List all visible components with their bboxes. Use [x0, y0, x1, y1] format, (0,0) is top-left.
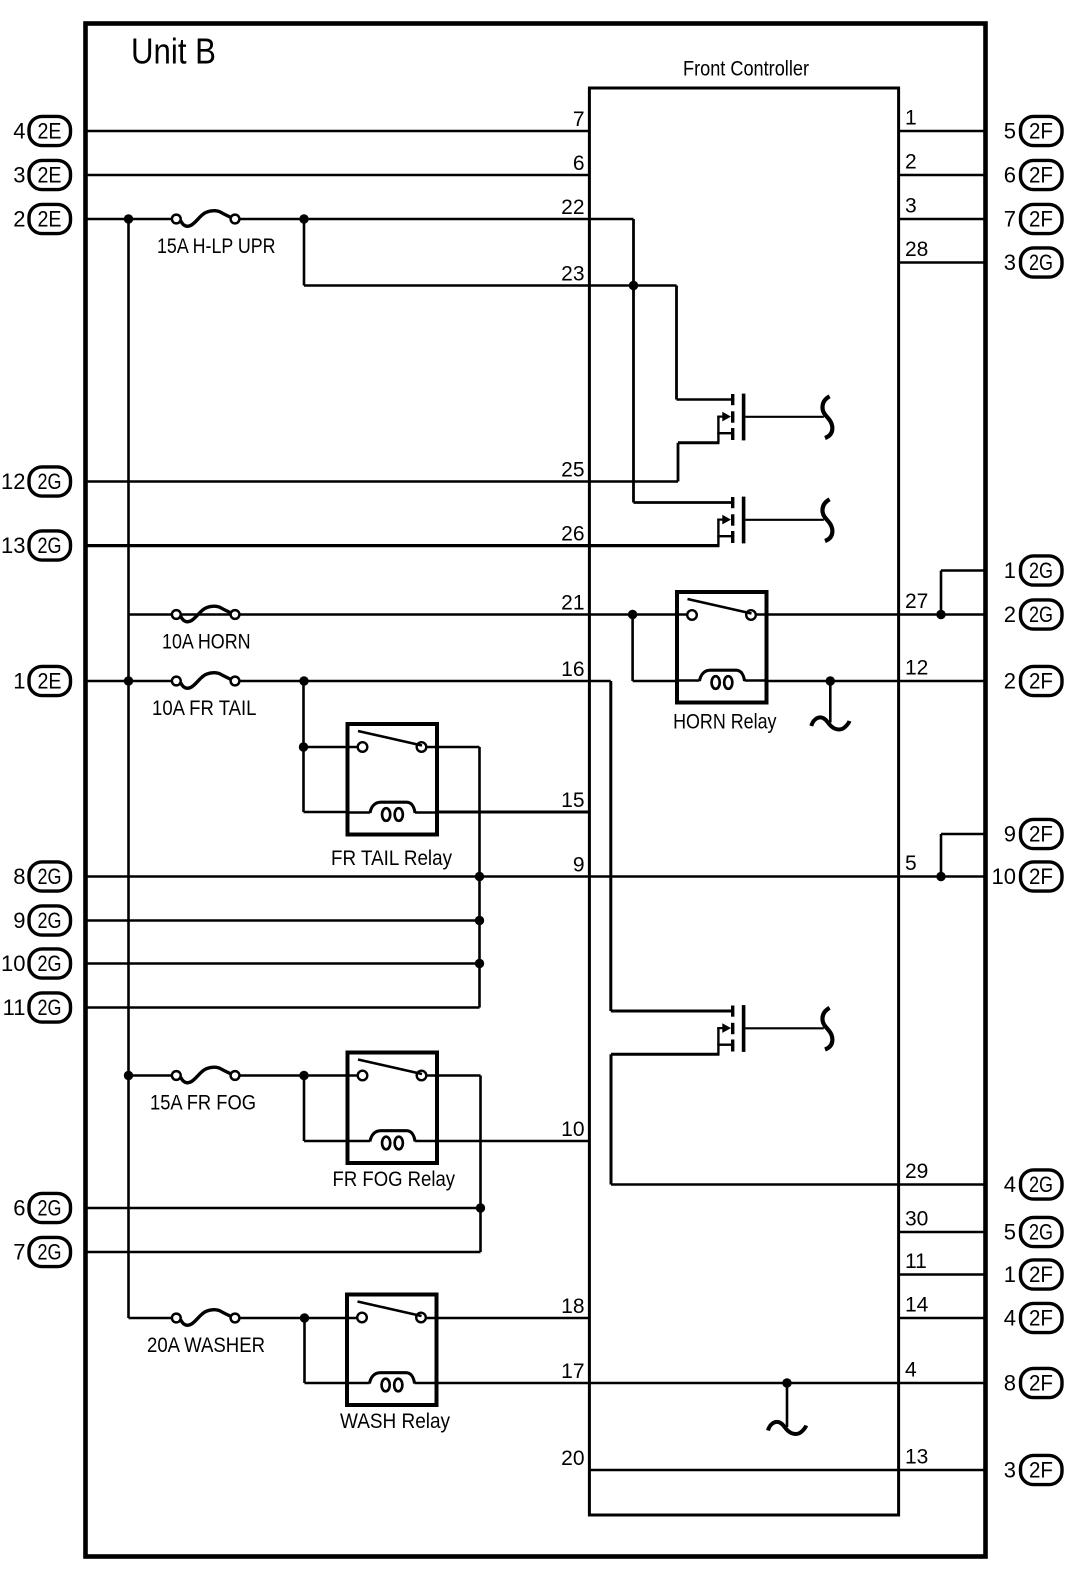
svg-text:22: 22: [561, 196, 584, 219]
svg-text:10: 10: [561, 1118, 584, 1141]
connector 9 (2G) left: [13, 906, 70, 935]
connector 2 (2E) left: [13, 204, 70, 233]
svg-text:20: 20: [561, 1447, 584, 1470]
svg-text:10: 10: [1, 951, 25, 976]
connector 8 (2G) left: [13, 862, 70, 891]
junction fuse/pin23: [299, 214, 308, 223]
svg-text:2E: 2E: [38, 119, 62, 144]
svg-text:2G: 2G: [38, 864, 62, 889]
svg-text:26: 26: [561, 522, 584, 545]
svg-text:2G: 2G: [1029, 1220, 1053, 1245]
svg-text:Unit B: Unit B: [131, 31, 216, 72]
wire from 11(2G): [86, 1006, 480, 1009]
svg-text:8: 8: [1004, 1371, 1016, 1396]
connector 1 (2G) right: [1004, 556, 1062, 585]
svg-text:4: 4: [1004, 1306, 1016, 1331]
wire internal pin16 down to Q3: [609, 681, 612, 1011]
wire FR TAIL coil drive: [302, 681, 305, 812]
svg-text:1: 1: [905, 107, 917, 130]
junction FR FOG fuse/coil: [299, 1071, 308, 1080]
connector 4 (2E) left: [13, 116, 70, 145]
svg-text:27: 27: [905, 590, 928, 613]
wire WASH coil drive: [303, 1318, 306, 1383]
svg-text:1: 1: [13, 669, 25, 694]
svg-text:2: 2: [905, 151, 917, 174]
wire pin10 FR FOG coil: [437, 1140, 589, 1143]
svg-text:2: 2: [13, 207, 25, 232]
relay K1 HORN Relay: [673, 592, 777, 733]
wire pin28 to 3(2G): [899, 261, 986, 264]
wire from 7(2G): [86, 1251, 481, 1254]
svg-text:2G: 2G: [38, 1196, 62, 1221]
svg-text:2G: 2G: [38, 908, 62, 933]
Front Controller box U1: [589, 88, 898, 1515]
connector 2 (2F) right: [1004, 666, 1062, 695]
junction tail out/pin9: [475, 872, 484, 881]
wire pin26 from 13(2G) (MOSFET Q2 source): [86, 544, 719, 547]
connector 12 (2G) left: [1, 467, 70, 496]
relay K2 FR TAIL Relay: [331, 724, 452, 870]
connector 3 (2G) right: [1004, 248, 1062, 277]
wire drop to pin23: [303, 219, 306, 286]
svg-text:HORN Relay: HORN Relay: [673, 710, 777, 733]
svg-text:2G: 2G: [1029, 558, 1053, 583]
svg-text:15A FR FOG: 15A FR FOG: [150, 1092, 256, 1115]
wire pin17/pin4 wash coil to 8(2F): [437, 1382, 986, 1384]
fuse F4 15A FR FOG: [150, 1067, 256, 1114]
fuse F3 10A FR TAIL: [152, 673, 257, 720]
wire pin30 to 5(2G): [899, 1231, 986, 1234]
wire pin6 from 3(2E): [86, 174, 590, 177]
svg-text:6: 6: [573, 152, 585, 175]
ground at horn relay coil: [811, 681, 849, 729]
svg-text:2F: 2F: [1029, 1262, 1053, 1287]
wire pin3 to 7(2F): [899, 218, 986, 221]
fuse F2 10A HORN: [162, 606, 251, 653]
fuse F1 15A H-LP UPR: [157, 211, 276, 258]
load squiggle of transistor Q1: [822, 396, 832, 438]
svg-text:5: 5: [1004, 1220, 1016, 1245]
svg-text:5: 5: [1004, 119, 1016, 144]
junction 2(2E)/bus: [124, 214, 133, 223]
wire pin20/pin13 to 3(2F): [589, 1469, 985, 1471]
wire pin22 from 2(2E) through fuse: [86, 218, 173, 221]
wire pin29 to 4(2G): [611, 1183, 986, 1186]
svg-text:5: 5: [905, 852, 917, 875]
wire internal pin22 to Q2 gate: [632, 219, 635, 503]
svg-text:9: 9: [13, 908, 25, 933]
connector 7 (2G) left: [13, 1237, 70, 1266]
svg-text:30: 30: [905, 1208, 928, 1231]
junction horn line/coil: [628, 610, 637, 619]
wire FR TAIL switch feed: [304, 746, 358, 749]
fuse F5 20A WASHER: [147, 1310, 265, 1357]
svg-text:23: 23: [561, 262, 584, 285]
junction horn out/1(2G): [936, 610, 945, 619]
wire pin18 washer line through fuse: [129, 1317, 173, 1320]
svg-text:2: 2: [1004, 602, 1016, 627]
svg-text:1: 1: [1004, 558, 1016, 583]
svg-text:2G: 2G: [1029, 602, 1053, 627]
svg-text:14: 14: [905, 1294, 929, 1317]
junction bus/FR FOG: [124, 1071, 133, 1080]
wire Q1 source to pin25 line: [677, 443, 680, 482]
svg-text:2F: 2F: [1029, 207, 1053, 232]
svg-text:20A WASHER: 20A WASHER: [147, 1334, 265, 1357]
svg-text:3: 3: [905, 195, 917, 218]
wire pin16 from 1(2E) through fuse: [86, 680, 173, 683]
junction bus/1(2E): [124, 676, 133, 685]
junction FR TAIL switch/coil: [299, 742, 308, 751]
svg-text:2: 2: [1004, 669, 1016, 694]
junction pin5/9(2F): [936, 872, 945, 881]
svg-text:6: 6: [1004, 163, 1016, 188]
connector 13 (2G) left: [1, 531, 70, 560]
svg-text:18: 18: [561, 1295, 584, 1318]
svg-text:17: 17: [561, 1360, 584, 1383]
svg-text:2G: 2G: [1029, 1172, 1053, 1197]
svg-text:9: 9: [573, 853, 585, 876]
wire pin2 to 6(2F): [899, 174, 986, 177]
wire from 9(2G): [86, 919, 480, 922]
svg-text:10: 10: [992, 864, 1016, 889]
svg-text:4: 4: [1004, 1172, 1016, 1197]
svg-text:10A FR TAIL: 10A FR TAIL: [152, 697, 257, 720]
ground at wash relay line: [768, 1383, 806, 1434]
svg-text:7: 7: [573, 108, 585, 131]
svg-text:4: 4: [13, 119, 25, 144]
wire FR FOG coil drive: [303, 1076, 306, 1142]
connector 5 (2F) right: [1004, 116, 1062, 145]
svg-text:FR TAIL Relay: FR TAIL Relay: [331, 847, 452, 870]
connector 8 (2F) right: [1004, 1368, 1062, 1397]
svg-text:2G: 2G: [38, 469, 62, 494]
svg-text:11: 11: [3, 995, 26, 1020]
svg-text:2F: 2F: [1029, 822, 1053, 847]
connector 1 (2E) left: [13, 666, 70, 695]
wire pin9/pin5 from 8(2G) to 10(2F): [86, 875, 986, 877]
connector 6 (2F) right: [1004, 160, 1062, 189]
svg-text:7: 7: [13, 1240, 25, 1265]
wire pin11 to 1(2F): [899, 1273, 986, 1276]
svg-text:FR FOG Relay: FR FOG Relay: [333, 1168, 456, 1191]
wire pin15 FR TAIL coil: [437, 811, 589, 814]
svg-text:3: 3: [1004, 1458, 1016, 1483]
svg-text:2G: 2G: [38, 533, 62, 558]
wire stub to 1(2G): [941, 569, 986, 572]
connector 2 (2G) right: [1004, 600, 1062, 629]
svg-text:3: 3: [13, 163, 25, 188]
svg-text:2E: 2E: [38, 669, 62, 694]
transistor Q1: [677, 394, 824, 443]
svg-text:15A H-LP UPR: 15A H-LP UPR: [157, 235, 276, 258]
connector 9 (2F) right: [1004, 819, 1062, 848]
svg-text:3: 3: [1004, 250, 1016, 275]
connector 4 (2G) right: [1004, 1170, 1062, 1199]
wire bus from 2(2E) junction down left side: [127, 219, 130, 1318]
svg-text:2F: 2F: [1029, 1458, 1053, 1483]
wire FR FOG switch output: [426, 1074, 480, 1077]
wire pin25 from 12(2G): [86, 480, 679, 483]
svg-text:10A HORN: 10A HORN: [162, 631, 251, 654]
relay K3 FR FOG Relay: [333, 1053, 456, 1192]
junction WASHER fuse/coil: [300, 1313, 309, 1322]
svg-text:2E: 2E: [38, 207, 62, 232]
svg-text:12: 12: [1, 469, 25, 494]
svg-text:2E: 2E: [38, 163, 62, 188]
connector 5 (2G) right: [1004, 1217, 1062, 1246]
wire from 6(2G): [86, 1207, 481, 1210]
connector 11 (2G) left: [3, 993, 71, 1022]
svg-text:13: 13: [905, 1446, 928, 1469]
wire pin12 horn coil to 2(2F): [766, 680, 986, 683]
wire pin1 to 5(2F): [899, 130, 986, 133]
junction 1(2E)/FR TAIL: [299, 676, 308, 685]
wire stub to 9(2F): [941, 833, 986, 836]
svg-text:2G: 2G: [1029, 250, 1053, 275]
svg-text:7: 7: [1004, 207, 1016, 232]
wire pin7 from 4(2E): [86, 130, 590, 133]
svg-text:28: 28: [905, 238, 928, 261]
wire Q3 source down to pin29 line: [610, 1054, 613, 1184]
svg-text:9: 9: [1004, 822, 1016, 847]
svg-text:13: 13: [1, 533, 25, 558]
wire pin23: [304, 284, 677, 287]
load squiggle of transistor Q3: [822, 1008, 832, 1050]
svg-text:2F: 2F: [1029, 1371, 1053, 1396]
wire pin21/pin27 horn line to 2(2G): [129, 613, 688, 616]
svg-text:Front Controller: Front Controller: [683, 58, 809, 81]
wire pin14 to 4(2F): [899, 1317, 986, 1320]
svg-text:2G: 2G: [38, 1240, 62, 1265]
svg-text:2G: 2G: [38, 995, 62, 1020]
svg-text:11: 11: [905, 1250, 927, 1273]
connector 3 (2E) left: [13, 160, 70, 189]
svg-text:29: 29: [905, 1160, 928, 1183]
connector 4 (2F) right: [1004, 1303, 1062, 1332]
junction pin23/Q2 gate: [629, 281, 638, 290]
wire FR TAIL switch output: [426, 746, 479, 749]
svg-text:2F: 2F: [1029, 864, 1053, 889]
relay K4 WASH Relay: [340, 1295, 450, 1434]
connector 10 (2G) left: [1, 949, 70, 978]
svg-text:16: 16: [561, 658, 584, 681]
connector 7 (2F) right: [1004, 204, 1062, 233]
svg-text:2F: 2F: [1029, 669, 1053, 694]
wire internal pin23 to Q1 gate: [675, 286, 678, 400]
connector 1 (2F) right: [1004, 1260, 1062, 1289]
junction horn coil/ground: [826, 676, 835, 685]
svg-text:8: 8: [13, 864, 25, 889]
junction tail out/10(2G): [475, 959, 484, 968]
svg-text:1: 1: [1004, 1262, 1016, 1287]
svg-text:4: 4: [905, 1359, 917, 1382]
svg-text:21: 21: [561, 591, 584, 614]
wire from 10(2G): [86, 962, 480, 965]
svg-text:2F: 2F: [1029, 1306, 1053, 1331]
connector 6 (2G) left: [13, 1193, 70, 1222]
transistor Q3: [611, 1005, 824, 1054]
transistor Q2: [86, 497, 824, 546]
load squiggle of transistor Q2: [822, 499, 832, 541]
svg-text:25: 25: [561, 458, 584, 481]
junction tail out/9(2G): [475, 916, 484, 925]
svg-text:12: 12: [905, 657, 928, 680]
svg-text:WASH Relay: WASH Relay: [340, 1410, 450, 1433]
svg-text:2F: 2F: [1029, 163, 1053, 188]
wire 15A FR FOG feed through fuse: [129, 1074, 173, 1077]
junction fog out/6(2G): [476, 1203, 485, 1212]
svg-text:2F: 2F: [1029, 119, 1053, 144]
svg-text:6: 6: [13, 1196, 25, 1221]
connector 3 (2F) right: [1004, 1455, 1062, 1484]
svg-text:15: 15: [561, 789, 584, 812]
svg-text:2G: 2G: [38, 951, 62, 976]
connector 10 (2F) right: [992, 862, 1062, 891]
wire horn coil drive: [631, 615, 634, 682]
junction wash coil/ground: [782, 1378, 791, 1387]
